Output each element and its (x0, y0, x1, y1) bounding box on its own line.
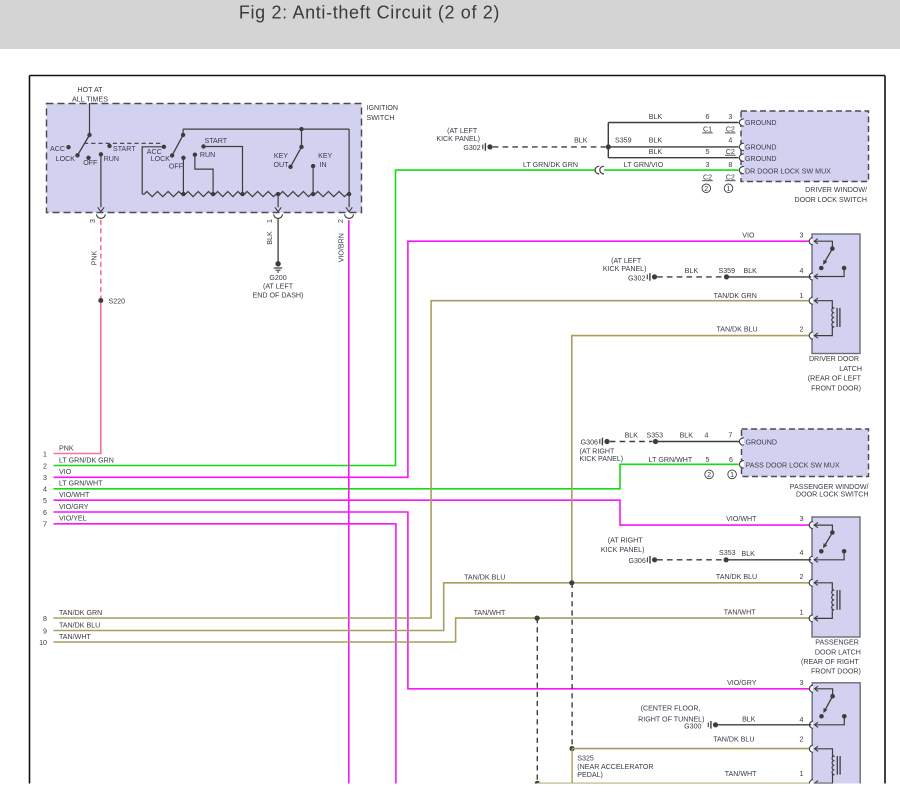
svg-text:4: 4 (728, 137, 732, 145)
svg-text:ALL TIMES: ALL TIMES (72, 96, 108, 104)
svg-text:TAN/WHT: TAN/WHT (724, 609, 756, 617)
svg-text:OFF: OFF (169, 163, 184, 171)
svg-text:3: 3 (43, 474, 47, 482)
svg-text:VIO: VIO (59, 468, 72, 476)
svg-text:2: 2 (336, 219, 345, 223)
svg-text:PASSENGER WINDOW/: PASSENGER WINDOW/ (790, 483, 869, 491)
svg-text:DRIVER WINDOW/: DRIVER WINDOW/ (805, 186, 867, 194)
svg-text:8: 8 (43, 615, 47, 623)
svg-text:5: 5 (706, 456, 710, 464)
svg-text:TAN/DK GRN: TAN/DK GRN (714, 292, 757, 300)
svg-text:TAN/DK GRN: TAN/DK GRN (59, 609, 102, 617)
svg-text:S359: S359 (719, 267, 736, 275)
svg-text:BLK: BLK (649, 148, 663, 156)
svg-text:PASSENGER: PASSENGER (815, 638, 859, 646)
svg-text:DOOR LATCH: DOOR LATCH (815, 648, 861, 656)
svg-text:BLK: BLK (741, 550, 755, 558)
svg-text:LT GRN/DK GRN: LT GRN/DK GRN (59, 456, 114, 464)
svg-text:3: 3 (706, 161, 710, 169)
svg-text:PEDAL): PEDAL) (577, 771, 603, 779)
svg-text:4: 4 (800, 549, 804, 557)
svg-text:S220: S220 (109, 298, 126, 306)
svg-text:VIO: VIO (742, 232, 755, 240)
svg-text:3: 3 (728, 113, 732, 121)
svg-text:6: 6 (706, 113, 710, 121)
svg-text:2: 2 (707, 470, 711, 479)
svg-text:DRIVER DOOR: DRIVER DOOR (809, 355, 859, 363)
svg-text:(CENTER FLOOR,: (CENTER FLOOR, (641, 705, 701, 713)
svg-text:START: START (113, 145, 136, 153)
svg-text:4: 4 (705, 432, 709, 440)
svg-text:(AT LEFT: (AT LEFT (263, 283, 294, 291)
svg-text:7: 7 (728, 432, 732, 440)
svg-text:FRONT DOOR): FRONT DOOR) (811, 668, 861, 676)
svg-text:2: 2 (704, 184, 708, 193)
svg-text:BLK: BLK (685, 267, 699, 275)
svg-text:RUN: RUN (200, 151, 215, 159)
svg-text:BLK: BLK (574, 137, 588, 145)
svg-text:VIO/WHT: VIO/WHT (59, 491, 90, 499)
svg-text:2: 2 (800, 736, 804, 744)
svg-text:8: 8 (728, 161, 732, 169)
svg-text:C2: C2 (726, 173, 735, 181)
svg-text:Fig 2: Anti-theft Circuit (2 o: Fig 2: Anti-theft Circuit (2 of 2) (239, 3, 500, 23)
svg-text:KICK PANEL): KICK PANEL) (580, 455, 624, 463)
svg-text:HOT AT: HOT AT (78, 86, 104, 94)
svg-text:TAN/WHT: TAN/WHT (474, 609, 506, 617)
svg-text:BLK: BLK (743, 267, 757, 275)
svg-text:(NEAR ACCELERATOR: (NEAR ACCELERATOR (577, 763, 653, 771)
svg-text:IGNITION: IGNITION (367, 104, 399, 112)
svg-text:1: 1 (727, 184, 731, 193)
svg-text:6: 6 (729, 456, 733, 464)
svg-text:TAN/DK BLU: TAN/DK BLU (464, 574, 505, 582)
svg-text:FRONT DOOR): FRONT DOOR) (811, 385, 861, 393)
svg-text:S353: S353 (647, 432, 664, 440)
svg-text:IN: IN (320, 161, 327, 169)
svg-text:C2: C2 (726, 148, 735, 156)
svg-text:TAN/DK BLU: TAN/DK BLU (716, 326, 757, 334)
svg-text:TAN/DK BLU: TAN/DK BLU (59, 621, 100, 629)
svg-text:VIO/WHT: VIO/WHT (726, 515, 757, 523)
svg-text:1: 1 (800, 292, 804, 300)
svg-text:TAN/DK BLU: TAN/DK BLU (716, 573, 757, 581)
svg-text:SWITCH: SWITCH (367, 114, 395, 122)
svg-text:KICK PANEL): KICK PANEL) (601, 546, 645, 554)
svg-text:C2: C2 (703, 173, 712, 181)
svg-text:VIO/GRY: VIO/GRY (727, 679, 757, 687)
svg-text:C1: C1 (703, 126, 712, 134)
svg-text:S359: S359 (615, 137, 632, 145)
svg-text:G300: G300 (684, 722, 701, 730)
svg-text:G200: G200 (269, 274, 286, 282)
svg-text:BLK: BLK (266, 231, 274, 245)
svg-text:BLK: BLK (625, 432, 639, 440)
svg-text:C2: C2 (726, 126, 735, 134)
svg-text:BLK: BLK (649, 113, 663, 121)
svg-text:BLK: BLK (649, 137, 663, 145)
svg-text:TAN/WHT: TAN/WHT (59, 633, 91, 641)
svg-text:GROUND: GROUND (745, 155, 777, 163)
svg-text:START: START (205, 137, 228, 145)
svg-text:GROUND: GROUND (746, 438, 778, 446)
svg-text:7: 7 (43, 521, 47, 529)
svg-text:LATCH: LATCH (839, 365, 862, 373)
svg-text:3: 3 (800, 515, 804, 523)
svg-text:5: 5 (706, 148, 710, 156)
svg-text:GROUND: GROUND (745, 144, 777, 152)
svg-text:2: 2 (800, 573, 804, 581)
svg-text:PNK: PNK (90, 250, 98, 265)
svg-text:GROUND: GROUND (745, 119, 777, 127)
svg-text:VIO/GRY: VIO/GRY (59, 503, 89, 511)
svg-text:3: 3 (800, 679, 804, 687)
svg-text:KICK PANEL): KICK PANEL) (603, 265, 647, 273)
svg-text:VIO/BRN: VIO/BRN (337, 233, 345, 262)
svg-text:3: 3 (800, 232, 804, 240)
svg-text:6: 6 (43, 509, 47, 517)
svg-text:DR DOOR LOCK SW MUX: DR DOOR LOCK SW MUX (745, 167, 831, 175)
svg-text:4: 4 (800, 716, 804, 724)
svg-text:OFF: OFF (83, 159, 98, 167)
svg-text:OUT: OUT (274, 161, 290, 169)
svg-text:1: 1 (43, 450, 47, 458)
svg-text:VIO/YEL: VIO/YEL (59, 515, 87, 523)
svg-text:LT GRN/DK GRN: LT GRN/DK GRN (523, 161, 578, 169)
svg-text:(AT LEFT: (AT LEFT (447, 127, 478, 135)
svg-text:KEY: KEY (274, 152, 288, 160)
svg-text:KEY: KEY (318, 152, 332, 160)
svg-text:RUN: RUN (104, 155, 119, 163)
svg-text:2: 2 (43, 462, 47, 470)
svg-text:3: 3 (88, 219, 97, 223)
svg-text:DOOR LOCK SWITCH: DOOR LOCK SWITCH (794, 196, 867, 204)
svg-text:(REAR OF LEFT: (REAR OF LEFT (808, 375, 862, 383)
svg-text:PNK: PNK (59, 444, 74, 452)
svg-text:1: 1 (800, 770, 804, 778)
svg-text:(REAR OF RIGHT: (REAR OF RIGHT (801, 658, 860, 666)
svg-text:4: 4 (800, 267, 804, 275)
svg-text:LT GRN/WHT: LT GRN/WHT (649, 456, 693, 464)
svg-text:TAN/DK BLU: TAN/DK BLU (713, 736, 754, 744)
svg-text:KICK PANEL): KICK PANEL) (436, 135, 480, 143)
svg-text:9: 9 (43, 627, 47, 635)
svg-text:G302: G302 (628, 274, 645, 282)
svg-text:TAN/WHT: TAN/WHT (725, 770, 757, 778)
svg-text:LT GRN/WHT: LT GRN/WHT (59, 480, 103, 488)
svg-text:PASS DOOR LOCK SW MUX: PASS DOOR LOCK SW MUX (746, 462, 840, 470)
svg-text:LOCK: LOCK (56, 155, 76, 163)
svg-text:G302: G302 (463, 144, 480, 152)
svg-text:ACC: ACC (50, 145, 65, 153)
svg-text:10: 10 (39, 639, 47, 647)
svg-text:LT GRN/VIO: LT GRN/VIO (624, 161, 664, 169)
svg-text:G306: G306 (628, 557, 645, 565)
svg-text:LOCK: LOCK (151, 155, 171, 163)
svg-text:4: 4 (43, 486, 47, 494)
svg-text:G306: G306 (581, 439, 598, 447)
svg-text:S325: S325 (577, 754, 594, 762)
svg-text:BLK: BLK (680, 432, 694, 440)
svg-text:1: 1 (800, 609, 804, 617)
svg-text:S353: S353 (719, 549, 736, 557)
svg-text:(AT RIGHT: (AT RIGHT (608, 536, 643, 544)
svg-text:1: 1 (730, 470, 734, 479)
svg-text:5: 5 (43, 497, 47, 505)
svg-text:DOOR LOCK SWITCH: DOOR LOCK SWITCH (796, 491, 869, 499)
svg-text:1: 1 (265, 219, 274, 223)
svg-text:END OF DASH): END OF DASH) (253, 292, 304, 300)
svg-text:2: 2 (800, 326, 804, 334)
svg-text:BLK: BLK (742, 716, 756, 724)
